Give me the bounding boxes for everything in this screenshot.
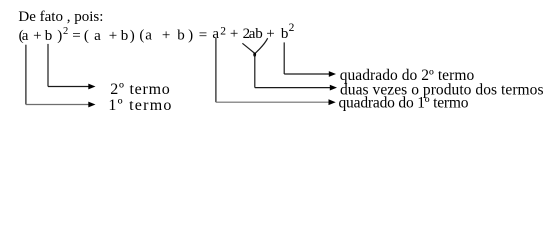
svg-text:De fato , pois:: De fato , pois: — [18, 9, 103, 25]
wire: vertical from 'b2' down — [283, 42, 285, 74]
arrowhead to 'quadrado do 1º termo' — [329, 99, 336, 105]
wire: horizontal to '1º termo' arrow — [26, 104, 89, 106]
brace Y under '2ab' left arm — [242, 43, 254, 53]
arrowhead to 'quadrado do 2º termo' — [329, 71, 336, 77]
wire: horizontal to 'quadrado do 2º termo' arrow — [284, 73, 329, 75]
svg-text:2: 2 — [63, 26, 68, 37]
wire: vertical from first 'a' down — [25, 45, 27, 105]
wire: vertical from brace down — [254, 55, 256, 88]
svg-text:1º termo: 1º termo — [108, 97, 171, 114]
svg-text:=: = — [199, 28, 207, 44]
arrowhead to '1º termo' — [88, 102, 95, 108]
svg-text:2: 2 — [289, 22, 295, 34]
svg-text:2: 2 — [220, 26, 226, 38]
wire: horizontal to 'quadrado do 1º termo' arrow — [216, 101, 329, 103]
brace Y under '2ab' right arm — [255, 38, 268, 53]
svg-text:quadrado do 1º termo: quadrado do 1º termo — [339, 94, 469, 111]
wire: vertical from 'a2' down — [215, 38, 217, 102]
arrowhead to '2º termo' — [88, 84, 95, 90]
formula: (a + b )^2 = ( a + b ) (a + b ) = a^2 + 2ab + b^2 — [19, 22, 295, 44]
wire: horizontal to 'duas vezes...' arrow — [255, 87, 330, 89]
brace junction dot — [253, 53, 256, 57]
wire: horizontal to '2º termo' arrow — [48, 86, 89, 88]
svg-text:2º termo: 2º termo — [110, 81, 170, 98]
arrowhead to 'duas vezes...' — [330, 85, 337, 91]
wire: vertical from first 'b' down — [47, 44, 49, 87]
